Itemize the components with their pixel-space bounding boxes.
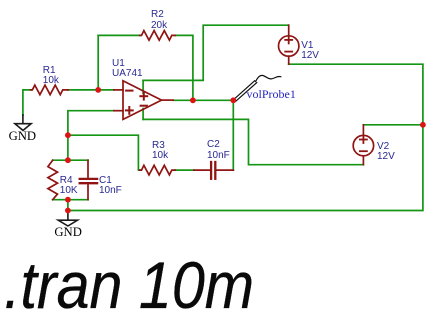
wire between R3 and C2 (175, 169, 194, 171)
resistor R2 (140, 31, 176, 41)
junction GND2 node (65, 208, 71, 214)
label U1 UA741 (112, 59, 143, 80)
wire op-amp V- pin stub (142, 109, 144, 120)
label R3 value (152, 141, 168, 162)
label V1 value (301, 41, 319, 62)
capacitor C2 (194, 162, 233, 179)
label GND2 text (54, 225, 82, 240)
wire R4/C1 bottom to GND2 node (67, 200, 69, 211)
resistor R3 (140, 165, 176, 175)
wire op-amp output to probe node (173, 99, 234, 101)
wire non-inverting input to node B and down to R4/C1 top (68, 111, 114, 161)
resistor R1 (31, 85, 69, 95)
wire node A vertical to R2 left (97, 35, 99, 90)
voltage source V1 (279, 25, 299, 64)
wire R2 right down to output node (175, 35, 193, 100)
directive .tran 10m (4, 247, 254, 317)
resistor R4 (48, 160, 58, 200)
wire GND1 riser to R1 left (23, 90, 31, 115)
label GND1 text (9, 129, 37, 144)
wire R2 left horizontal (98, 34, 140, 36)
wire bottom net: GND2 node to right rail up to V1 minus (68, 64, 423, 210)
wire op-amp V+ pin stub (142, 80, 144, 93)
label C1 value (99, 176, 122, 197)
wire R3 left up and over to node B (68, 135, 140, 170)
label C2 value (207, 140, 230, 161)
junction R4/C1 bottom (65, 197, 71, 203)
junction V1-/V2+ node (420, 122, 426, 128)
op-amp U1 (114, 81, 173, 120)
label R1 value (43, 66, 59, 87)
label R4 value (60, 176, 78, 197)
ground GND2 (58, 211, 77, 227)
label V2 value (377, 142, 395, 163)
wire R4/C1 bottom rail (53, 199, 88, 201)
junction R4/C1 top (65, 157, 71, 163)
ground GND1 (15, 115, 31, 130)
wire R4/C1 top rail (53, 159, 88, 161)
voltage source V2 (353, 125, 373, 165)
label volProbe1 (247, 87, 296, 102)
wire V2 minus to op-amp V- pin (143, 119, 363, 164)
wire R1 right to op-amp inverting input (68, 89, 114, 91)
wire V2 plus to right rail junction (363, 124, 423, 126)
label R2 value (151, 10, 167, 31)
junction probe node (230, 97, 236, 103)
wire probe node down to C2 right (232, 100, 234, 170)
junction node A (R1/R2/inverting input) (95, 87, 101, 93)
probe volProbe1 needle (234, 75, 281, 101)
capacitor C1 (80, 160, 97, 200)
wire V+ rail to V1 plus (143, 25, 289, 80)
junction output/R2 (190, 97, 196, 103)
junction node B (non-inverting input/R3) (65, 132, 71, 138)
